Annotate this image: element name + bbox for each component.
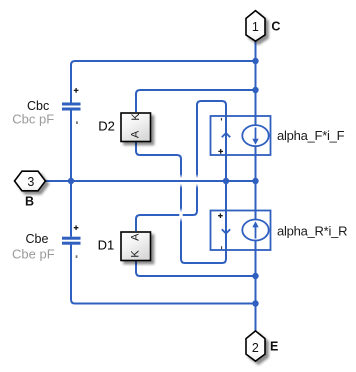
- wire D2 anode down and right to bottom sensor: [136, 142, 226, 263]
- wire Cbe bottom to bottom horizontal to E node: [71, 244, 256, 303]
- capacitor Cbc plates: [62, 103, 81, 106]
- wire hop gap on x=197 at B wire: [195, 174, 198, 188]
- diode D2 block: [121, 113, 151, 142]
- svg-text:Cbe pF: Cbe pF: [12, 247, 55, 262]
- wire hop gap on x=181 at B wire: [179, 174, 182, 188]
- svg-text:1: 1: [252, 20, 259, 34]
- wire C vertical from port C through both source circles to port E: [255, 42, 257, 332]
- minus sign Cbe: [76, 255, 78, 258]
- junction dot E at D1 wire: [252, 273, 258, 279]
- wire D1 cathode down to E node: [136, 261, 256, 276]
- svg-text:alpha_F*i_F: alpha_F*i_F: [277, 128, 345, 143]
- arrow down inside top circle: [255, 128, 257, 140]
- minus sign Cbc: [76, 121, 78, 124]
- junction dot B at sensor line: [223, 178, 229, 184]
- plus sign Cbc: [74, 88, 79, 93]
- source circle alpha_R*i_R: [242, 220, 268, 241]
- junction dot C at D2 wire: [252, 87, 258, 93]
- junction dot B at Cbc/Cbe wire: [68, 178, 74, 184]
- svg-text:2: 2: [252, 341, 259, 355]
- svg-text:3: 3: [27, 175, 34, 189]
- svg-text:A: A: [129, 130, 141, 138]
- wire B horizontal: [46, 180, 256, 182]
- port 3 B hexagon: [15, 171, 46, 191]
- source circle alpha_F*i_F: [242, 125, 268, 146]
- wire C node to D2 cathode: [136, 90, 256, 112]
- diode D1 block: [121, 232, 151, 261]
- wire sensor line through both source blocks: [225, 116, 227, 251]
- current sensor arrow (down) in bottom block: [222, 229, 230, 233]
- plus sign top sensor: [218, 149, 223, 154]
- port 1 C hexagon: [246, 11, 265, 42]
- svg-text:K: K: [130, 113, 142, 121]
- minus sign top sensor: [221, 118, 222, 120]
- svg-text:Cbc pF: Cbc pF: [12, 111, 54, 126]
- svg-text:D2: D2: [98, 118, 115, 133]
- svg-text:B: B: [25, 194, 34, 208]
- plus sign bottom sensor: [218, 213, 223, 218]
- junction dot E at Cbe wire: [252, 300, 258, 306]
- minus sign bottom sensor: [221, 246, 222, 249]
- wire Cbc bottom to B junction to Cbe top: [70, 111, 72, 237]
- current source block alpha_F*i_F outline: [211, 116, 271, 155]
- svg-text:Cbe: Cbe: [26, 232, 49, 246]
- junction dot C at Cbc wire: [252, 58, 258, 64]
- wire top horizontal C node to Cbc top: [71, 61, 256, 103]
- arrow up inside bottom circle: [255, 227, 257, 239]
- svg-text:alpha_R*i_R: alpha_R*i_R: [277, 223, 347, 238]
- svg-text:D1: D1: [98, 237, 115, 252]
- wire hop gap on x=181 at D1 wire: [179, 208, 182, 222]
- junction dot B at source circles: [252, 178, 258, 184]
- port 2 E hexagon: [246, 331, 265, 361]
- svg-text:C: C: [271, 20, 280, 34]
- plus sign Cbe: [74, 225, 79, 230]
- current sensor arrow (up) in top block: [222, 133, 230, 137]
- svg-text:A: A: [130, 233, 142, 241]
- svg-text:E: E: [270, 340, 278, 354]
- capacitor Cbe plates: [62, 237, 81, 240]
- svg-text:K: K: [130, 250, 142, 258]
- wire D1 anode up and right to top sensor: [136, 101, 226, 231]
- current source block alpha_R*i_R outline: [211, 211, 271, 251]
